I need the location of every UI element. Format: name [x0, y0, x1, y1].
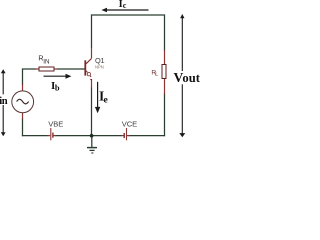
svg-text:L: L [155, 72, 158, 78]
svg-text:b: b [55, 83, 60, 93]
svg-text:VBE: VBE [48, 119, 63, 128]
svg-text:out: out [182, 71, 200, 85]
svg-text:VCE: VCE [122, 119, 137, 128]
svg-text:IN: IN [43, 59, 50, 66]
svg-text:c: c [123, 1, 127, 10]
svg-text:NPN: NPN [95, 65, 104, 70]
svg-text:in: in [0, 96, 8, 107]
svg-text:e: e [104, 95, 109, 106]
